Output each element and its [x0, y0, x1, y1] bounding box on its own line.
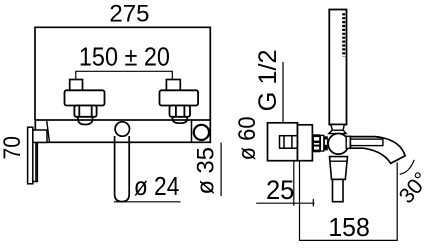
diverter housing divider line	[191, 120, 193, 142]
left union block	[65, 90, 105, 105]
dimension line 150±20	[76, 71, 173, 92]
left union inlet pipe	[70, 80, 83, 92]
left union hex nut	[74, 106, 96, 117]
extension line 25 right	[293, 161, 295, 206]
mixer body circle (side)	[328, 134, 349, 155]
bar bottom edge over column	[112, 141, 132, 143]
right union hex nut	[170, 106, 191, 117]
hand shower nozzle dots	[342, 13, 345, 56]
bracket hook strip	[33, 143, 38, 182]
dimension bracket 158	[300, 161, 398, 241]
mixer bar body	[35, 120, 210, 142]
down tube	[333, 179, 344, 201]
svg-text:150 ± 20: 150 ± 20	[79, 43, 170, 71]
spout outline	[351, 137, 406, 164]
G1/2 inlet detail	[280, 136, 298, 149]
spout inner tube	[351, 139, 383, 146]
svg-text:70: 70	[0, 136, 26, 160]
central pivot knob circle	[115, 122, 129, 136]
bracket stub	[33, 130, 47, 142]
leader line G 1/2	[282, 62, 284, 123]
hose nut taper	[331, 125, 344, 131]
hose nut lower flare	[329, 130, 346, 133]
svg-text:ø 24: ø 24	[134, 171, 180, 201]
spout connector flange	[346, 136, 350, 148]
svg-text:158: 158	[328, 212, 370, 242]
svg-text:25: 25	[266, 175, 295, 205]
diverter knob circle ø35	[194, 125, 209, 140]
leader line ø 35	[220, 143, 222, 196]
svg-text:ø 60: ø 60	[234, 116, 261, 160]
body housing behind plate	[298, 125, 313, 161]
right union block	[160, 90, 199, 105]
right union collar	[173, 117, 188, 123]
connection nut (plate to body, knurled)	[313, 134, 328, 152]
extension tick 158 left	[312, 199, 314, 207]
svg-text:ø 35: ø 35	[193, 147, 220, 195]
leader line 25	[256, 202, 314, 204]
wall bracket plate (front)	[28, 127, 33, 184]
spout column (front)	[115, 136, 130, 202]
wall panel rectangle (front view)	[35, 27, 210, 120]
bar left end chamfer	[47, 121, 50, 142]
30 degree arc	[400, 160, 415, 175]
leader line ø 24	[114, 201, 181, 203]
hand shower body	[329, 10, 346, 125]
right union inlet pipe	[166, 80, 180, 92]
body lower taper	[330, 157, 348, 180]
svg-text:275: 275	[109, 0, 149, 27]
wall escutcheon plate (side)	[268, 123, 298, 161]
svg-text:G 1/2: G 1/2	[254, 49, 282, 111]
left union collar	[78, 117, 93, 125]
